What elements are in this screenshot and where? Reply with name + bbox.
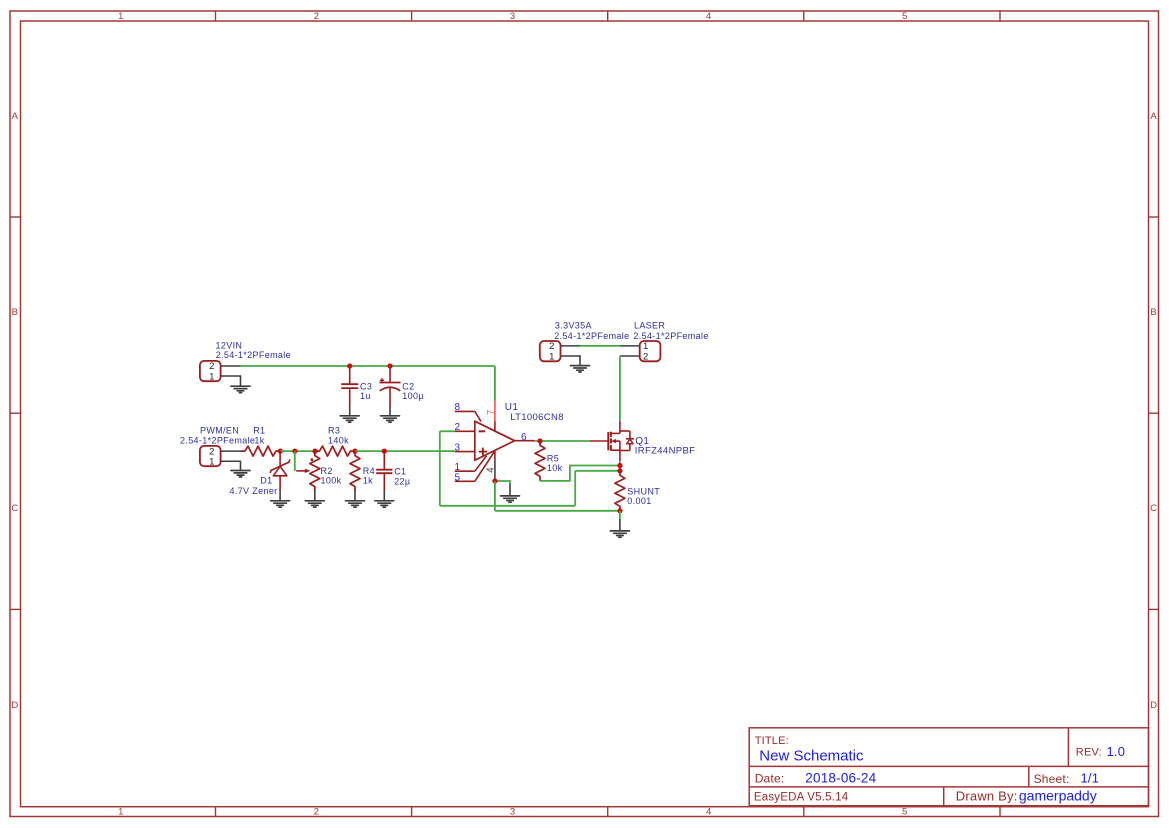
pin 1 stub (3.3V35A) (561, 356, 580, 357)
svg-text:12VIN: 12VIN (216, 340, 243, 350)
svg-text:gamerpaddy: gamerpaddy (1019, 787, 1097, 803)
transistor Q1 IRFZ44NPBF (590, 421, 634, 461)
resistor SHUNT (615, 471, 625, 511)
svg-text:R2: R2 (321, 466, 333, 476)
pin 2 stub (12VIN) (221, 365, 241, 367)
ground (PWM/EN pin 1) (231, 461, 250, 477)
svg-text:2.54-1*2PFemale: 2.54-1*2PFemale (554, 331, 629, 341)
capacitor C3 (341, 366, 358, 406)
junction (C2 / 12V rail) (387, 363, 392, 368)
svg-text:New Schematic: New Schematic (759, 748, 864, 765)
svg-text:2: 2 (455, 422, 461, 433)
wire shunt bottom to ground (619, 511, 621, 520)
svg-text:140k: 140k (328, 435, 349, 445)
svg-text:LASER: LASER (634, 321, 665, 331)
junction (R3/R4 node) (352, 449, 357, 454)
junction (C1 tap) (382, 449, 387, 454)
wire 12V rail drop to U1 pin 7 (494, 366, 496, 401)
svg-text:3: 3 (455, 442, 461, 453)
svg-text:2.54-1*2PFemale: 2.54-1*2PFemale (180, 436, 255, 446)
svg-text:R1: R1 (253, 425, 265, 435)
pin 2 stub (PWM/EN) (221, 450, 241, 452)
pin 2 stub (LASER) (620, 355, 640, 357)
svg-text:PWM/EN: PWM/EN (200, 425, 239, 435)
svg-text:4.7V Zener: 4.7V Zener (230, 486, 278, 496)
svg-text:A: A (12, 111, 19, 122)
capacitor C2 (polarized) (379, 366, 400, 406)
svg-text:2.54-1*2PFemale: 2.54-1*2PFemale (216, 350, 291, 360)
diode D1 4.7V zener (270, 451, 290, 491)
svg-text:1/1: 1/1 (1081, 771, 1100, 786)
svg-text:6: 6 (521, 432, 527, 443)
svg-text:2: 2 (314, 807, 319, 818)
svg-text:C: C (11, 503, 18, 514)
wire R5 bottom (540, 466, 620, 481)
svg-text:1.0: 1.0 (1107, 744, 1126, 759)
wire 12V rail (241, 365, 495, 367)
svg-text:1: 1 (118, 807, 123, 818)
svg-text:EasyEDA V5.5.14: EasyEDA V5.5.14 (754, 791, 849, 803)
svg-text:4: 4 (706, 807, 711, 818)
svg-text:LT1006CN8: LT1006CN8 (510, 412, 564, 423)
svg-text:5: 5 (455, 472, 461, 483)
svg-text:2: 2 (643, 351, 648, 362)
wire U1 pin2 feedback (left) (440, 430, 455, 432)
svg-text:1: 1 (118, 11, 123, 22)
svg-text:C1: C1 (394, 467, 406, 477)
svg-text:3: 3 (510, 11, 515, 22)
ground (C2) (381, 406, 400, 423)
junction (R2/R3 node) (312, 449, 317, 454)
pin 1 stub (PWM/EN) (221, 460, 241, 462)
svg-text:0.001: 0.001 (627, 496, 651, 506)
resistor R3 (315, 446, 355, 456)
svg-text:Date:: Date: (755, 772, 785, 786)
svg-text:D: D (1150, 700, 1157, 711)
svg-text:10k: 10k (547, 463, 563, 473)
svg-text:A: A (1150, 111, 1157, 122)
svg-text:8: 8 (455, 402, 461, 413)
wire bottom rail to shunt (495, 510, 620, 512)
op-amp U1 LT1006CN8 (455, 411, 535, 481)
pin 4 (U1) (494, 451, 496, 462)
wire U1 pin6 to Q1 gate (535, 440, 590, 442)
svg-text:SHUNT: SHUNT (627, 486, 660, 496)
svg-text:B: B (1150, 307, 1156, 318)
svg-text:TITLE:: TITLE: (755, 735, 789, 747)
resistor R5 (535, 441, 545, 481)
connector LASER 2.54-1*2PFemale (640, 341, 661, 362)
svg-text:Drawn By:: Drawn By: (956, 788, 1018, 803)
wire feedback riser (574, 471, 576, 506)
svg-text:R3: R3 (328, 425, 340, 435)
junction (wiper tap) (292, 449, 297, 454)
svg-text:1: 1 (209, 371, 214, 382)
pin 7 (U1, salmon segment) (494, 401, 496, 421)
svg-text:2: 2 (314, 11, 319, 22)
svg-text:1k: 1k (254, 435, 264, 445)
svg-text:C: C (1150, 503, 1157, 514)
svg-text:IRFZ44NPBF: IRFZ44NPBF (635, 446, 696, 457)
junction (R1/D1 node) (278, 449, 283, 454)
ground (SHUNT) (610, 520, 629, 538)
wire 3.3V to LASER (580, 345, 620, 347)
wire feedback vertical (439, 431, 441, 506)
junction (shunt top / feedback) (617, 468, 622, 473)
wire LASER pin2 to Q1 drain (619, 356, 621, 421)
wire Q1 source to shunt (619, 461, 621, 471)
svg-text:2018-06-24: 2018-06-24 (805, 771, 876, 786)
svg-text:4: 4 (485, 467, 496, 473)
wire feedback bottom (440, 505, 575, 507)
ground (U1 pin 4) (501, 484, 520, 502)
svg-text:5: 5 (902, 807, 907, 818)
capacitor C1 (376, 451, 392, 491)
ground (3.3V35A pin 1) (571, 356, 590, 372)
connector P? 12VIN 2.54-1*2PFemale (200, 361, 221, 382)
svg-text:1: 1 (549, 351, 554, 362)
svg-text:100µ: 100µ (402, 391, 424, 401)
connector PWM/EN 2.54-1*2PFemale (200, 446, 221, 468)
junction (shunt bottom) (617, 508, 622, 513)
svg-text:B: B (12, 307, 18, 318)
svg-text:3.3V35A: 3.3V35A (555, 321, 592, 331)
pin 2 stub (3.3V35A) (561, 345, 580, 347)
connector 3.3V35A 2.54-1*2PFemale (540, 341, 561, 362)
svg-text:1u: 1u (360, 391, 371, 401)
junction (U1 pin 4) (492, 478, 497, 483)
svg-text:D: D (11, 700, 18, 711)
svg-text:22µ: 22µ (394, 476, 410, 486)
junction (C3 / 12V rail) (347, 363, 352, 368)
svg-text:1: 1 (209, 456, 214, 467)
svg-text:4: 4 (706, 11, 711, 22)
ground (R4) (346, 491, 365, 507)
resistor R1 (241, 446, 281, 456)
svg-text:R4: R4 (363, 466, 375, 476)
pin 1 stub (12VIN) (221, 376, 241, 377)
potentiometer R2 (296, 451, 320, 491)
junction (shunt top / R5 wire) (617, 463, 622, 468)
svg-text:2.54-1*2PFemale: 2.54-1*2PFemale (633, 331, 708, 341)
resistor R4 (350, 451, 360, 491)
svg-text:REV:: REV: (1076, 747, 1102, 759)
wire feedback to shunt top (575, 470, 620, 472)
pin 1 stub (LASER) (620, 345, 640, 347)
ground (12VIN pin 1) (231, 376, 250, 393)
ground (C1) (375, 491, 394, 507)
wire R1 to R3 node (280, 450, 315, 452)
ground (R2) (305, 491, 324, 507)
svg-text:Sheet:: Sheet: (1034, 772, 1070, 786)
wire wiper tap drop (294, 451, 296, 471)
svg-text:100k: 100k (321, 476, 342, 486)
wire U1 pin4 to ground (495, 481, 510, 485)
svg-text:5: 5 (902, 11, 907, 22)
wire pin4 node down (494, 481, 496, 511)
ground (D1) (271, 491, 290, 507)
svg-text:7: 7 (486, 409, 497, 415)
ground (C3) (340, 406, 359, 422)
junction (R5 / pin6) (537, 438, 542, 443)
wire R3 node to U1 pin 3 (355, 450, 455, 452)
svg-text:1k: 1k (363, 476, 373, 486)
svg-text:D1: D1 (260, 476, 272, 486)
svg-text:3: 3 (510, 807, 515, 818)
